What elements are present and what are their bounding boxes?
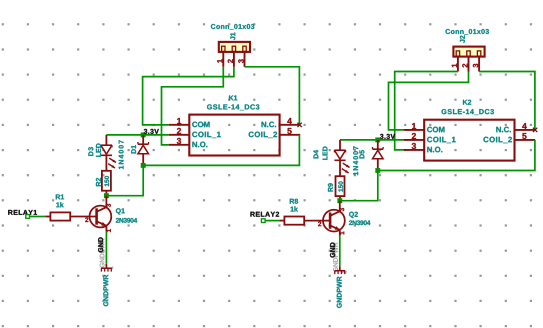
transistor Q2 reference Q2 [349, 212, 358, 218]
wire RELAY1 to R1 [30, 216, 46, 218]
connector J1 pin numbers 1 2 3 [217, 59, 244, 63]
junction at Q1 collector node [104, 193, 109, 198]
transistor Q1 value 2N3904 [116, 218, 137, 223]
pin-end mark at K2 pin 4 [533, 128, 537, 132]
wire 3.3V rail to K2 COIL_1 [340, 139, 404, 141]
resistor R1 [45, 212, 70, 220]
connector J1 value Conn_01x03 [211, 24, 254, 30]
relay K2 reference K2 [463, 100, 471, 105]
relay K2 pin names [427, 127, 512, 153]
diode D5 [373, 140, 384, 171]
resistor R9 value 150 [338, 181, 343, 191]
power symbol GNDPWR (left) [101, 264, 112, 272]
junction 3.3V at D5 cathode [375, 138, 380, 143]
wire J1 pin3 to K1 N.C. [245, 67, 300, 125]
wire J1 pin1 to K1 N.O. [162, 67, 224, 145]
junction at D1 anode [141, 163, 146, 168]
connector J1 reference J1 [230, 33, 235, 40]
relay K2 pin numbers [412, 123, 527, 149]
wire J2 pin1 to K2 N.O. [395, 72, 458, 150]
junction 3.3V at D1 cathode [141, 133, 146, 138]
relay K1 pin numbers [177, 118, 292, 144]
connector J2 reference J2 [460, 35, 465, 42]
transistor Q2 body [323, 201, 345, 236]
resistor R2 value 150 [104, 176, 109, 186]
resistor R2 [102, 171, 111, 196]
wire R8 to Q2 base (pin lead) [304, 220, 330, 222]
hidden power pin text GNDPWR [100, 238, 105, 267]
transistor Q1 pin numbers [85, 204, 111, 232]
net label 3.3V (right) [380, 134, 395, 139]
connector J2 pin numbers 1 2 3 [452, 64, 479, 68]
resistor R8 reference R8 [290, 199, 298, 204]
net label RELAY1 [8, 210, 37, 215]
transistor Q2 pin numbers [318, 208, 344, 234]
wire D5 anode to Q2 collector node [340, 171, 378, 201]
wire J1 pin2 to K1 COM [143, 67, 234, 125]
power symbol GNDPWR (right) [335, 266, 346, 274]
net label GND (right) [330, 243, 335, 258]
resistor R1 value 1k [56, 202, 63, 207]
wire J2 pin2 to K2 COM [389, 72, 469, 130]
net label GND [98, 237, 103, 252]
wire Q2 emitter to GNDPWR [339, 236, 341, 267]
wire K1 COIL_2 down to D1 anode [143, 135, 299, 166]
resistor R1 reference R1 [56, 194, 64, 199]
LED D3 [101, 135, 116, 171]
wire K2 COIL_2 down to D5 anode [378, 140, 535, 171]
resistor R2 reference R2 [96, 178, 101, 186]
wire 3.3V rail to K1 COIL_1 [106, 134, 168, 136]
diode D1 [138, 135, 149, 166]
resistor R9 reference R9 [328, 183, 333, 191]
open wire-end square RELAY1 [26, 215, 30, 219]
relay K2 value GSLE-14_DC3 [442, 109, 494, 115]
resistor R8 [279, 217, 304, 225]
connector J2 value Conn_01x03 [446, 29, 489, 35]
LED D3 reference D3 [88, 147, 93, 156]
resistor R8 value 1k [291, 206, 298, 211]
resistor R9 [336, 176, 345, 201]
connector J2 Conn_01x03 [453, 47, 484, 72]
diode D5 value 1N4007 [353, 146, 358, 175]
hidden power pin number 1 [109, 267, 113, 270]
wire R1 to Q1 base (pin lead) [70, 216, 97, 218]
net label RELAY2 [250, 212, 279, 217]
wire D1 anode to collector node [106, 165, 143, 195]
relay K1 reference K1 [229, 95, 237, 100]
LED D4 reference D4 [313, 150, 318, 158]
relay K1 body [169, 115, 301, 156]
transistor Q2 value 2N3904 [349, 220, 370, 225]
pin-end mark at K1 pin 4 [297, 123, 301, 127]
hidden power pin number 1 (right) [342, 271, 346, 274]
relay K1 pin names [192, 122, 277, 148]
LED D3 value LED [96, 143, 101, 156]
power symbol value GNDPWR (right) [337, 276, 342, 307]
transistor Q1 body [90, 196, 112, 232]
relay K2 body [404, 120, 535, 161]
diode D1 value 1N4007 [119, 140, 124, 169]
diode D5 reference D5 [359, 150, 364, 158]
connector J1 Conn_01x03 [219, 42, 250, 67]
open wire-end square RELAY2 [261, 219, 265, 223]
wire RELAY2 to R8 [265, 220, 279, 222]
transistor Q1 reference Q1 [116, 208, 125, 214]
wire J2 pin3 to K2 N.C. [479, 72, 535, 130]
net label 3.3V [144, 129, 159, 134]
junction at Q2 collector node [337, 198, 342, 203]
LED D4 [334, 140, 349, 176]
diode D1 reference D1 [131, 145, 136, 153]
power symbol value GNDPWR (left) [103, 275, 108, 306]
relay K1 value GSLE-14_DC3 [207, 104, 259, 110]
LED D4 value LED [323, 146, 328, 159]
wire Q1 emitter to GNDPWR [105, 231, 107, 263]
junction at D5 anode [375, 168, 380, 173]
hidden power pin text GNDPWR (right) [333, 243, 338, 272]
